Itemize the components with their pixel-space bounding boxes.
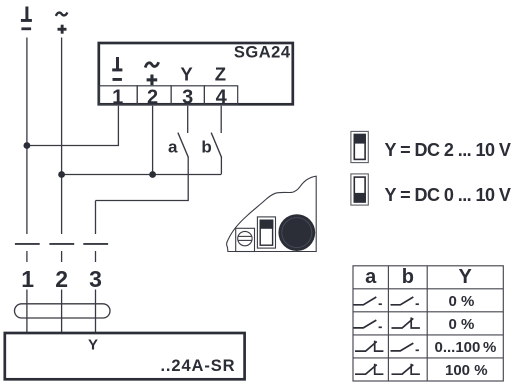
break stub wire 2 <box>61 251 63 262</box>
svg-text:2: 2 <box>147 87 158 109</box>
cable bundle oval <box>15 304 111 318</box>
switch a blade <box>178 133 189 158</box>
break stub wire 3 <box>95 251 97 262</box>
AC/plus symbol (~ +) <box>56 12 67 33</box>
wire 1 lower <box>26 290 28 333</box>
svg-text:a: a <box>365 266 377 288</box>
switch a lower wire down then left to wire 3 <box>96 157 189 201</box>
switch b lower wire to bus <box>220 157 222 175</box>
pictogram screw housing <box>236 228 255 251</box>
wire from terminal 2 down <box>152 106 154 175</box>
switch a stub from terminal 3 <box>187 106 189 133</box>
row3 switch a closed symbol <box>355 341 383 352</box>
svg-text:0 %: 0 % <box>449 293 475 310</box>
break bar on wire 2 <box>49 243 74 245</box>
svg-text:1: 1 <box>21 266 34 292</box>
pictogram slider switch <box>257 217 275 248</box>
row3 switch b open symbol <box>391 343 419 351</box>
svg-text:2: 2 <box>55 266 68 292</box>
break bar on wire 3 <box>83 243 108 245</box>
row1 switch a open symbol <box>354 297 382 305</box>
svg-text:b: b <box>402 266 414 288</box>
svg-text:0 %: 0 % <box>449 316 475 333</box>
svg-text:4: 4 <box>216 87 228 109</box>
break stub wire 1 <box>26 251 28 262</box>
svg-text:3: 3 <box>182 87 193 109</box>
svg-text:Y = DC 0 ... 10 V: Y = DC 0 ... 10 V <box>385 185 511 205</box>
row4 switch b closed symbol <box>392 364 420 375</box>
terminal block row <box>99 86 238 105</box>
wire 3 vertical upper <box>95 201 97 235</box>
pictogram knob <box>278 214 315 251</box>
row2 switch b closed symbol <box>392 318 420 329</box>
DIP switch icon S2 (down position) <box>351 174 368 205</box>
wire 2 (AC/plus feed) upper <box>61 38 63 235</box>
wire 3 lower <box>95 290 97 333</box>
pictogram adjuster screw <box>238 231 252 245</box>
actuator box ..24A-SR <box>5 333 245 379</box>
svg-text:Y: Y <box>180 63 193 84</box>
svg-text:SGA24: SGA24 <box>234 44 291 62</box>
svg-text:100 %: 100 % <box>445 362 488 379</box>
svg-text:Y = DC 2 ... 10 V: Y = DC 2 ... 10 V <box>385 140 511 160</box>
switch b blade <box>211 133 221 158</box>
bus wire at y=174.5 from wire2 to switch b <box>62 174 221 176</box>
actuator pictogram outline <box>227 176 317 251</box>
svg-text:a: a <box>168 138 178 157</box>
row2 switch a open symbol <box>354 320 382 328</box>
terminal label 1: earth/minus symbol <box>112 57 122 81</box>
function table grid <box>353 266 503 381</box>
switch b stub from terminal 4 <box>220 106 222 133</box>
svg-text:%: % <box>483 339 496 356</box>
ground symbol (safety earth / minus) <box>21 7 32 31</box>
svg-text:1: 1 <box>112 87 123 109</box>
DIP switch icon S1 (up position) <box>351 131 368 162</box>
svg-text:..24A-SR: ..24A-SR <box>160 357 235 375</box>
junction dot wire2/bus <box>58 171 65 178</box>
svg-text:b: b <box>201 138 211 157</box>
controller box SGA24 <box>99 43 293 104</box>
junction dot wire1/terminal1 <box>24 142 31 149</box>
wire 1 (earth/minus feed) upper <box>26 38 28 235</box>
terminal label 2: AC/plus symbol <box>145 62 158 85</box>
svg-text:Y: Y <box>88 337 98 354</box>
svg-text:Z: Z <box>215 63 226 84</box>
row4 switch a closed symbol <box>355 364 383 375</box>
svg-text:3: 3 <box>89 266 102 292</box>
wire 2 lower <box>61 290 63 333</box>
wire from terminal 1 down and left to wire 1 <box>27 106 119 146</box>
junction dot terminal2/bus <box>149 171 156 178</box>
row1 switch b open symbol <box>391 297 419 305</box>
svg-text:0...100: 0...100 <box>435 339 481 356</box>
svg-text:Y: Y <box>459 266 473 288</box>
break bar on wire 1 <box>15 243 40 245</box>
